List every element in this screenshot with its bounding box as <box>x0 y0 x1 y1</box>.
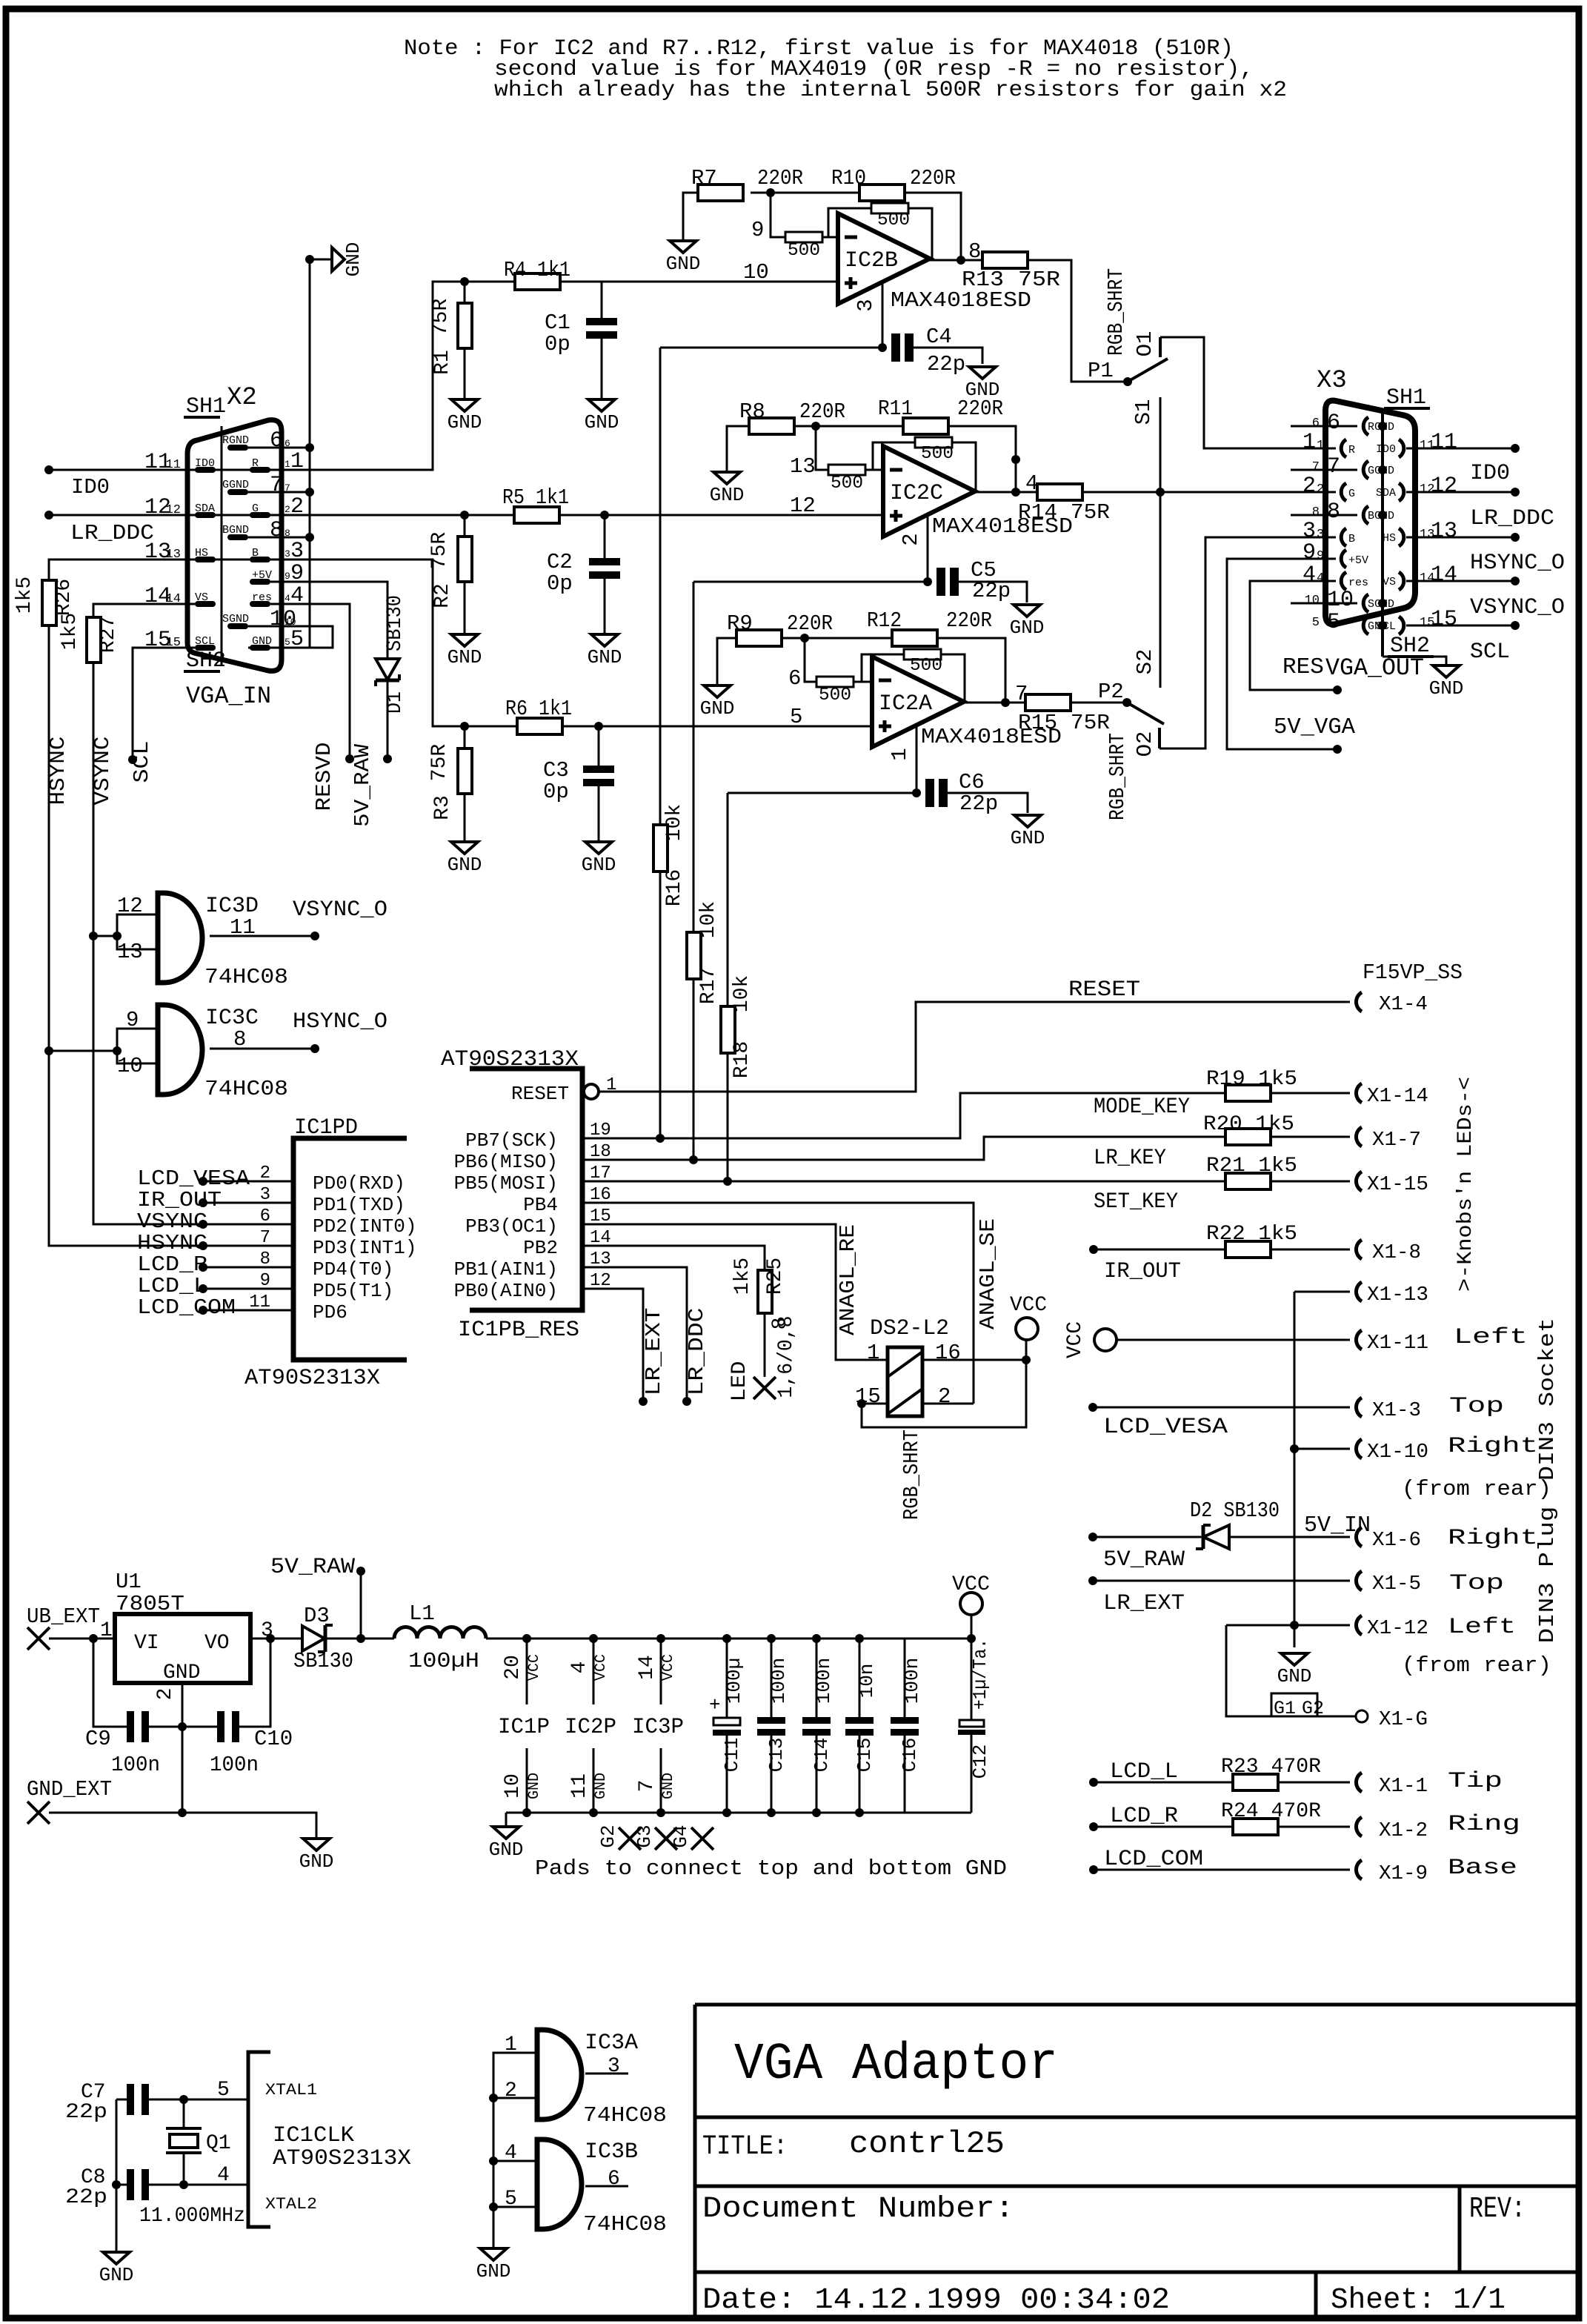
svg-text:LR_KEY: LR_KEY <box>1094 1146 1166 1171</box>
svg-text:SB130: SB130 <box>384 595 407 651</box>
X3 pin7 stub left <box>1291 469 1357 471</box>
X1-1 pin <box>1356 1773 1362 1792</box>
X3 pin 2 G <box>1341 483 1346 501</box>
svg-text:G2: G2 <box>1302 1698 1324 1719</box>
wire X1-12 <box>1226 1624 1350 1627</box>
svg-text:74HC08: 74HC08 <box>583 2212 667 2237</box>
svg-text:G: G <box>252 502 259 515</box>
svg-text:4: 4 <box>285 593 290 604</box>
svg-text:B: B <box>252 547 259 560</box>
wire C8 row <box>116 2184 127 2186</box>
svg-text:VI: VI <box>134 1632 159 1655</box>
svg-text:5: 5 <box>1312 616 1320 630</box>
svg-text:X1-3: X1-3 <box>1372 1400 1421 1422</box>
wire C7 to xtal1 <box>149 2099 248 2101</box>
wire IC2A out <box>964 702 1025 704</box>
wire PB6 LR_KEY <box>582 1137 1225 1160</box>
junction rail C11 <box>722 1634 731 1643</box>
junction R2 tap <box>460 511 469 519</box>
svg-text:VCC: VCC <box>660 1654 677 1681</box>
svg-text:C15: C15 <box>854 1738 876 1773</box>
svg-text:220R: 220R <box>946 608 992 633</box>
svg-text:HS: HS <box>195 547 208 560</box>
svg-text:HSYNC_O: HSYNC_O <box>293 1009 387 1035</box>
resistor 500 series IC2C <box>828 465 865 475</box>
svg-text:GND: GND <box>342 242 365 277</box>
svg-text:500: 500 <box>788 241 820 261</box>
svg-text:contrl25: contrl25 <box>849 2126 1005 2162</box>
svg-text:VSYNC_O: VSYNC_O <box>293 897 387 923</box>
svg-text:G2: G2 <box>597 1825 619 1847</box>
svg-text:SCL: SCL <box>195 635 215 648</box>
svg-text:IC2C: IC2C <box>890 481 943 506</box>
resistor R15 <box>1025 694 1071 711</box>
junction rail IC1P <box>522 1634 531 1643</box>
capacitor C2 <box>589 558 620 565</box>
wire 500bfb right <box>941 654 965 703</box>
wire VSYNC to IC3D <box>93 935 117 937</box>
svg-text:500: 500 <box>921 444 954 464</box>
ic IC1PD box <box>293 1138 407 1360</box>
svg-text:GND: GND <box>1011 827 1045 849</box>
capacitor C5 <box>936 568 945 596</box>
vcc symbol rail <box>960 1593 982 1615</box>
svg-text:1: 1 <box>505 2033 517 2056</box>
svg-text:R18: R18 <box>731 1041 753 1078</box>
wire 500 to minus <box>822 236 838 239</box>
svg-text:Top: Top <box>1449 1571 1504 1596</box>
wire IC3B out <box>585 2185 628 2188</box>
svg-text:X1-15: X1-15 <box>1367 1174 1428 1196</box>
wire LCD_R <box>1094 1826 1233 1828</box>
svg-text:R12: R12 <box>867 608 902 633</box>
junction IC3D in <box>113 932 122 940</box>
node ID0 out dot <box>1511 444 1520 453</box>
svg-text:SCL: SCL <box>1470 640 1510 665</box>
node SCL stub dot <box>128 755 137 764</box>
svg-text:GND: GND <box>163 1661 200 1684</box>
wire LR_DDC <box>49 514 195 517</box>
svg-text:5V_RAW: 5V_RAW <box>350 743 375 827</box>
svg-text:R15 75R: R15 75R <box>1018 711 1110 735</box>
svg-text:PB0(AIN0): PB0(AIN0) <box>454 1280 558 1302</box>
svg-text:Q1: Q1 <box>206 2132 231 2155</box>
svg-text:VCC: VCC <box>526 1654 543 1681</box>
resistor R1 <box>458 303 472 348</box>
wire O1 to X3 pin1 <box>1160 337 1336 448</box>
svg-text:7: 7 <box>636 1780 659 1793</box>
svg-text:8: 8 <box>769 1318 792 1330</box>
svg-text:TITLE:: TITLE: <box>702 2131 788 2162</box>
wire HSYNC to IC3C <box>49 1050 117 1052</box>
svg-text:22p: 22p <box>927 352 965 376</box>
ground R9 <box>704 685 731 697</box>
svg-text:X1-12: X1-12 <box>1367 1618 1428 1640</box>
net S1-S2 line <box>1160 397 1162 688</box>
capacitor C9 <box>127 1711 134 1742</box>
node RESVD dot <box>345 754 354 763</box>
vcc symbol X1-11 <box>1094 1329 1117 1351</box>
wire X3 +5V to 5V_VGA <box>1227 559 1337 749</box>
svg-text:O1: O1 <box>1133 331 1157 357</box>
wire xtal left vertical <box>116 2099 118 2252</box>
svg-text:SCL: SCL <box>1376 620 1396 633</box>
wire IC3A out <box>585 2073 628 2075</box>
capacitor C11 <box>726 1639 728 1717</box>
svg-text:O2: O2 <box>1133 731 1157 757</box>
svg-text:X1-11: X1-11 <box>1367 1332 1428 1355</box>
X2 pin 6 RGND stub <box>227 445 248 451</box>
svg-text:6: 6 <box>1312 416 1320 431</box>
svg-text:R8: R8 <box>739 399 765 424</box>
svg-text:VCC: VCC <box>1010 1294 1047 1317</box>
svg-text:4: 4 <box>1317 571 1324 585</box>
wire R7 left <box>683 193 698 241</box>
switch P1 pole <box>1123 377 1132 386</box>
svg-text:R4 1k1: R4 1k1 <box>504 258 570 282</box>
wire Q1 top stub <box>183 2099 185 2128</box>
svg-text:LCD_COM: LCD_COM <box>1104 1847 1203 1872</box>
svg-text:Right: Right <box>1448 1434 1538 1459</box>
node LCD_VESA dot <box>1088 1403 1097 1412</box>
node DS2 pin15 dot <box>857 1399 866 1408</box>
node X3 res dot <box>1333 685 1342 694</box>
ground R3 <box>451 842 478 854</box>
junction VSYNC tap <box>89 932 98 940</box>
wire B riser <box>195 560 465 726</box>
svg-text:7805T: 7805T <box>116 1592 184 1616</box>
junction C4 node <box>878 343 887 352</box>
svg-text:IC1PD: IC1PD <box>294 1115 358 1141</box>
svg-text:IC3C: IC3C <box>205 1006 259 1031</box>
svg-text:5: 5 <box>790 705 802 729</box>
wire R riser <box>195 282 465 470</box>
diode D3 SB130 <box>302 1626 325 1651</box>
wire C10 to out <box>239 1639 270 1727</box>
svg-text:C12: C12 <box>969 1744 991 1779</box>
svg-text:R6 1k1: R6 1k1 <box>505 697 572 721</box>
junction R9-R12 node <box>800 634 809 643</box>
X2 pin 13 HS stub <box>195 557 216 562</box>
svg-text:220R: 220R <box>910 166 956 190</box>
title block frame <box>693 2005 697 2318</box>
svg-text:GND: GND <box>660 1773 677 1799</box>
svg-text:GND_EXT: GND_EXT <box>27 1777 112 1802</box>
jumper G1 G2 <box>1271 1693 1317 1716</box>
svg-text:500: 500 <box>910 656 942 676</box>
wire U1 gnd pin <box>182 1683 184 1813</box>
resistor R8 <box>749 418 794 434</box>
wire ID0 <box>49 469 195 471</box>
resistor R3 <box>458 748 472 794</box>
X2 pin 2 G stub <box>250 512 270 518</box>
wire X2 SGND loop <box>248 626 333 648</box>
junction C8 left <box>112 2180 121 2189</box>
wire IC3D out <box>210 935 315 937</box>
svg-text:R: R <box>1348 444 1355 456</box>
svg-text:ID0: ID0 <box>195 457 215 470</box>
svg-text:2: 2 <box>899 533 923 545</box>
svg-text:3: 3 <box>854 299 878 311</box>
wire R1 bottom <box>464 348 466 399</box>
wire C5 row left <box>693 581 928 583</box>
wire C2 top <box>604 515 606 558</box>
svg-text:6: 6 <box>270 428 283 454</box>
capacitor C13 <box>771 1639 773 1717</box>
svg-text:R16: R16 <box>663 869 686 906</box>
capacitor C14 <box>816 1639 818 1717</box>
svg-text:7: 7 <box>1312 460 1320 474</box>
node LCD_VESA dot <box>199 1177 207 1186</box>
svg-text:16: 16 <box>935 1341 961 1365</box>
wire Q1 bottom stub <box>183 2153 185 2185</box>
svg-text:14: 14 <box>636 1655 659 1680</box>
X3 pin 8 BGND <box>1363 506 1368 524</box>
svg-text:75R: 75R <box>428 744 451 782</box>
svg-text:GND: GND <box>593 1773 610 1799</box>
wire C8 to xtal2 <box>149 2184 248 2186</box>
wire R2 bottom <box>464 582 466 634</box>
svg-text:220R: 220R <box>957 396 1003 421</box>
svg-text:IC2P: IC2P <box>565 1715 616 1740</box>
junction IC3B in2 <box>489 2202 498 2211</box>
svg-text:S2: S2 <box>1133 649 1157 675</box>
wire R1 top <box>464 282 466 303</box>
resistor R10 <box>859 185 905 201</box>
svg-text:1: 1 <box>888 748 912 760</box>
X3 pin 6 RGND <box>1363 417 1368 435</box>
wire R14 to X3 pin2 <box>1083 491 1336 494</box>
wire din3 gnd chain <box>1294 1292 1296 1647</box>
wire X2 GGND to bus <box>248 491 310 494</box>
svg-text:500: 500 <box>819 685 851 705</box>
svg-text:8: 8 <box>1312 505 1320 519</box>
wire RESVD <box>270 604 350 759</box>
node LCD_R dot <box>199 1263 207 1272</box>
wire IC2A pin1 <box>916 726 918 793</box>
X3 pin 4 res <box>1341 572 1346 590</box>
wire node to 500 g <box>816 426 828 470</box>
svg-text:GND: GND <box>252 635 272 648</box>
svg-text:9: 9 <box>1317 549 1324 563</box>
wire R25 to LED <box>764 1313 766 1377</box>
svg-text:P2: P2 <box>1098 680 1124 704</box>
svg-text:6: 6 <box>608 2168 620 2191</box>
svg-text:X1-G: X1-G <box>1379 1709 1428 1731</box>
wire VSYNC vertical <box>93 663 293 1224</box>
wire IC2B out <box>930 259 982 262</box>
X1-G pin open circle <box>1356 1710 1368 1722</box>
X3 pin 7 GGND <box>1363 461 1368 479</box>
svg-text:+5V: +5V <box>252 569 272 582</box>
svg-text:5: 5 <box>1327 610 1340 635</box>
wire 500g to minus <box>865 469 883 471</box>
resistor R26 <box>42 580 56 625</box>
capacitor C15 <box>859 1639 861 1717</box>
svg-text:D3: D3 <box>304 1604 330 1628</box>
junction gnd C15 <box>855 1808 864 1817</box>
wire SCL <box>133 648 195 760</box>
wire IC2P gnd stub <box>593 1748 595 1813</box>
svg-text:5V_VGA: 5V_VGA <box>1274 714 1355 740</box>
svg-text:8: 8 <box>270 518 283 543</box>
svg-text:R21 1k5: R21 1k5 <box>1206 1155 1297 1178</box>
svg-text:X1-1: X1-1 <box>1379 1776 1428 1798</box>
svg-text:GND: GND <box>299 1850 334 1873</box>
svg-text:G3: G3 <box>633 1825 656 1847</box>
svg-text:PB2: PB2 <box>523 1237 558 1259</box>
svg-text:C10: C10 <box>254 1727 293 1751</box>
ground X3 <box>1433 665 1460 677</box>
X2 pin 5 GND stub <box>250 645 270 651</box>
svg-text:GND: GND <box>476 2260 511 2282</box>
gate IC3D 74HC08 <box>158 893 202 983</box>
svg-text:11: 11 <box>1420 439 1434 453</box>
svg-text:BGND: BGND <box>222 524 249 537</box>
wire R6 left <box>465 726 517 728</box>
wire R3 top <box>464 726 466 748</box>
svg-text:GND: GND <box>700 697 735 720</box>
junction gnd C14 <box>812 1808 821 1817</box>
wire 500fb left <box>828 208 871 237</box>
switch DS2-L2 <box>888 1347 922 1416</box>
resistor R27 <box>87 617 101 663</box>
wire C7 row <box>116 2099 127 2101</box>
svg-text:LCD_COM: LCD_COM <box>137 1295 236 1320</box>
wire C6 row left <box>728 792 916 794</box>
wire HSYNC_O out <box>1406 537 1515 539</box>
svg-text:Left: Left <box>1448 1615 1516 1640</box>
wire C3 bottom <box>598 786 600 842</box>
svg-text:X1-2: X1-2 <box>1379 1820 1428 1842</box>
svg-text:R23 470R: R23 470R <box>1221 1756 1321 1779</box>
svg-text:6: 6 <box>260 1206 270 1226</box>
svg-text:2: 2 <box>285 504 290 515</box>
ground C2 <box>591 634 618 646</box>
capacitor C16 <box>904 1639 906 1717</box>
svg-text:R11: R11 <box>878 396 913 421</box>
junction gnd chain X1-10 <box>1290 1444 1299 1453</box>
wire 500b to minus <box>854 681 872 683</box>
wire R8 to R11 <box>793 425 903 428</box>
svg-text:IC1PB_RES: IC1PB_RES <box>458 1318 579 1343</box>
wire R20 to X1-7 <box>1271 1136 1350 1138</box>
svg-text:X2: X2 <box>227 384 257 412</box>
svg-text:2: 2 <box>505 2079 517 2102</box>
wire vcc rail stub <box>971 1615 973 1639</box>
junction gnd ext <box>178 1808 187 1817</box>
wire C2 bottom <box>604 579 606 634</box>
resistor R19 <box>1225 1085 1271 1101</box>
wire DS2 pin16 to VCC <box>922 1359 1026 1361</box>
capacitor C7 <box>127 2084 134 2115</box>
wire G row <box>195 514 514 517</box>
svg-text:11: 11 <box>568 1773 591 1799</box>
pin LED x <box>753 1377 776 1399</box>
junction R7-R10 node <box>766 188 775 197</box>
svg-text:IC3B: IC3B <box>585 2139 638 2165</box>
X3 pin 5 GND <box>1363 617 1368 634</box>
svg-text:PB7(SCK): PB7(SCK) <box>465 1129 558 1152</box>
svg-text:9: 9 <box>1302 540 1316 565</box>
svg-text:SH1: SH1 <box>1386 385 1426 411</box>
resistor R4 <box>515 273 560 290</box>
svg-text:100n: 100n <box>210 1753 259 1777</box>
svg-text:20: 20 <box>502 1655 525 1680</box>
svg-text:Date: 14.12.1999 00:34:02: Date: 14.12.1999 00:34:02 <box>702 2284 1170 2317</box>
switch P2 lever <box>1127 703 1164 724</box>
wire R12 right <box>937 638 1005 703</box>
svg-text:Base: Base <box>1448 1856 1517 1881</box>
junction R18 PB5 <box>723 1177 732 1186</box>
junction HSYNC tap <box>44 1046 53 1055</box>
X1-9 pin <box>1356 1860 1362 1879</box>
wire LCD_VESA <box>203 1181 293 1183</box>
wire HSYNC vertical <box>49 625 293 1246</box>
svg-text:100n: 100n <box>111 1753 160 1777</box>
wire PB4 ANAGL_SE <box>582 1203 974 1404</box>
svg-text:2: 2 <box>1302 474 1316 499</box>
wire IC3C inputs <box>117 1029 158 1063</box>
gate IC3B 74HC08 <box>537 2139 582 2229</box>
svg-text:GGND: GGND <box>222 479 249 491</box>
svg-text:GND: GND <box>582 854 616 876</box>
svg-text:VO: VO <box>204 1632 230 1655</box>
svg-text:LR_EXT: LR_EXT <box>642 1308 666 1396</box>
svg-text:AT90S2313X: AT90S2313X <box>244 1366 380 1391</box>
junction rail C13 <box>767 1634 776 1643</box>
svg-text:R22 1k5: R22 1k5 <box>1206 1223 1297 1246</box>
svg-text:X1-4: X1-4 <box>1379 994 1428 1016</box>
svg-text:22p: 22p <box>959 791 998 816</box>
svg-text:ID0: ID0 <box>1470 461 1510 486</box>
resistor R16 <box>653 825 668 871</box>
svg-text:2: 2 <box>938 1384 951 1409</box>
svg-text:SH1: SH1 <box>186 394 226 419</box>
svg-text:5V_RAW: 5V_RAW <box>270 1555 355 1580</box>
wire LR_DDC out <box>1406 491 1515 494</box>
node 5V_VGA dot <box>1333 745 1342 754</box>
svg-text:LCD_VESA: LCD_VESA <box>1103 1415 1228 1440</box>
svg-text:100µ: 100µ <box>723 1658 745 1704</box>
capacitor C3 <box>583 766 614 773</box>
svg-text:C11: C11 <box>721 1738 743 1773</box>
X1-4 pin <box>1356 992 1362 1012</box>
svg-text:1: 1 <box>1302 430 1316 455</box>
svg-text:R5 1k1: R5 1k1 <box>502 485 569 510</box>
X3 gnd bus exit <box>1383 657 1446 665</box>
resistor 500 feedback IC2B <box>871 203 908 213</box>
svg-text:R9: R9 <box>727 611 753 636</box>
svg-text:+: + <box>709 1694 721 1716</box>
wire R17 bottom <box>693 979 695 1160</box>
resistor R2 <box>458 537 472 582</box>
node VSYNC_O out dot <box>1511 577 1520 585</box>
wire IC3P vcc stub <box>660 1639 662 1704</box>
X1-8 pin <box>1356 1240 1362 1259</box>
svg-text:IC1P: IC1P <box>498 1715 550 1740</box>
X1-3 pin <box>1356 1398 1362 1417</box>
svg-text:DIN3 Plug: DIN3 Plug <box>1535 1507 1560 1644</box>
junction gndrail IC2P <box>589 1808 598 1817</box>
svg-text:12: 12 <box>1420 482 1434 497</box>
wire UB_EXT in <box>49 1638 115 1640</box>
svg-text:1: 1 <box>867 1341 879 1365</box>
svg-text:RESET: RESET <box>1068 977 1140 1003</box>
X2 pin 8 BGND stub <box>227 534 248 540</box>
svg-text:13: 13 <box>117 940 143 964</box>
wire LCD_L <box>203 1288 293 1290</box>
